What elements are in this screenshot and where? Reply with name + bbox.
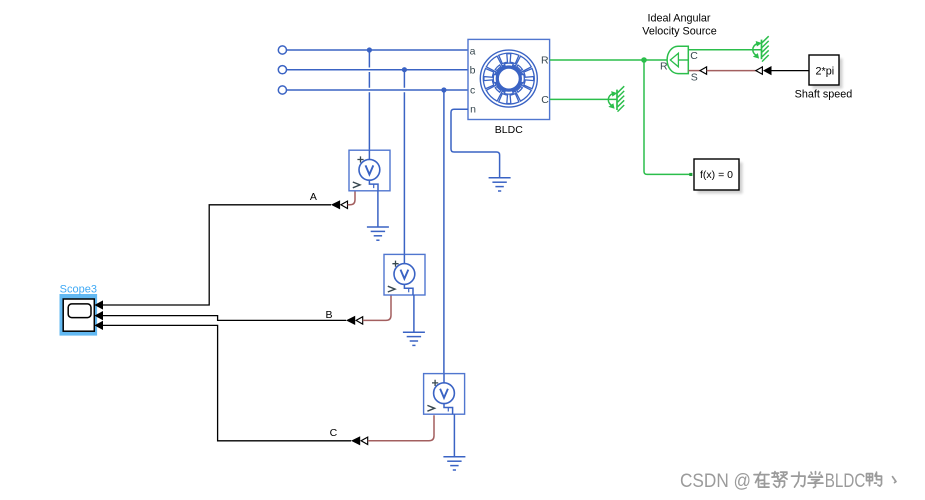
svg-text:c: c <box>470 85 475 97</box>
svg-text:Scope3: Scope3 <box>60 283 97 295</box>
svg-text:Ideal Angular: Ideal Angular <box>647 12 710 24</box>
svg-text:b: b <box>470 64 476 76</box>
svg-text:C: C <box>330 427 338 439</box>
svg-text:BLDC: BLDC <box>495 124 523 136</box>
svg-text:C: C <box>541 94 549 106</box>
svg-text:S: S <box>691 71 698 83</box>
svg-text:A: A <box>310 191 317 203</box>
svg-text:a: a <box>470 46 476 58</box>
svg-text:R: R <box>660 61 668 73</box>
svg-text:n: n <box>470 104 476 116</box>
svg-text:Velocity Source: Velocity Source <box>642 26 716 38</box>
svg-text:2*pi: 2*pi <box>815 65 834 77</box>
svg-text:CSDN @: CSDN @ <box>680 470 751 492</box>
svg-text:Shaft speed: Shaft speed <box>795 89 853 101</box>
svg-text:B: B <box>325 309 332 321</box>
svg-text:BLDC: BLDC <box>825 470 866 492</box>
svg-text:C: C <box>690 50 698 62</box>
svg-text:f(x) = 0: f(x) = 0 <box>700 169 733 181</box>
svg-text:R: R <box>541 55 549 67</box>
